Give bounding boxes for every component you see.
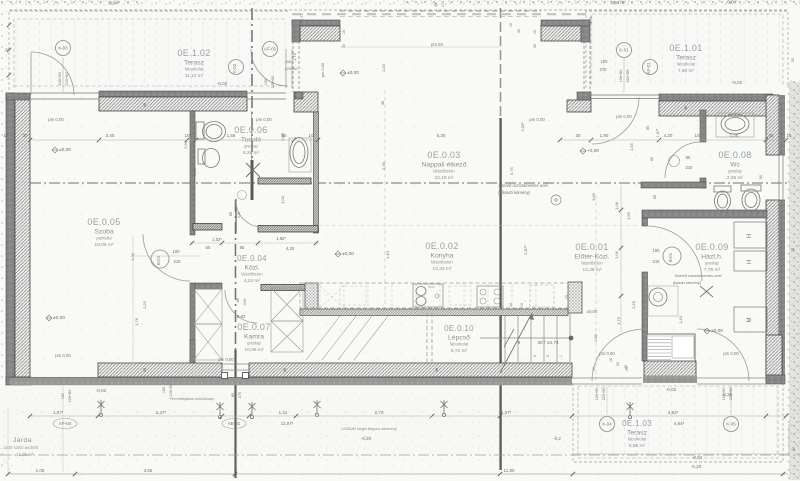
door bubble B-01 hazt xyxy=(663,247,681,265)
terrace 0E.1.02 dashed boundary xyxy=(9,11,290,90)
svg-text:1,55: 1,55 xyxy=(227,133,236,138)
kitchen counter end checkered block xyxy=(568,282,582,313)
svg-text:(állandó kémény): (állandó kémény) xyxy=(498,190,531,195)
svg-text:20: 20 xyxy=(616,362,620,366)
svg-text:220+50: 220+50 xyxy=(271,76,275,89)
svg-text:12,26 m²: 12,26 m² xyxy=(583,267,602,273)
north wall pillar east bar xyxy=(581,20,590,42)
svg-text:2,25: 2,25 xyxy=(142,300,147,309)
svg-text:B-01: B-01 xyxy=(156,255,161,265)
svg-text:30: 30 xyxy=(575,133,581,138)
svg-text:0E.0.06: 0E.0.06 xyxy=(234,125,267,135)
svg-text:Közl.: Közl. xyxy=(244,265,259,272)
svg-text:1,71: 1,71 xyxy=(588,15,593,24)
window K-02 opening lines xyxy=(247,92,286,94)
svg-text:faburkolat: faburkolat xyxy=(450,342,469,347)
tusolo bidet xyxy=(198,149,205,164)
svg-text:100+50: 100+50 xyxy=(595,388,599,401)
north wall right section cap xyxy=(659,94,773,101)
door bubble B-01 szoba xyxy=(151,250,169,268)
svg-text:parketta: parketta xyxy=(96,236,112,241)
svg-text:-0,04: -0,04 xyxy=(692,455,703,460)
svg-text:0E.1.01: 0E.1.01 xyxy=(669,43,702,53)
svg-text:4,24 m²: 4,24 m² xyxy=(244,278,261,284)
svg-text:Terasz: Terasz xyxy=(676,55,697,62)
svg-text:100: 100 xyxy=(173,249,181,254)
svg-text:0E.0.07: 0E.0.07 xyxy=(237,322,270,332)
svg-text:85: 85 xyxy=(686,155,691,160)
svg-text:Terasz: Terasz xyxy=(627,430,648,437)
nappali west wall V1 xyxy=(314,112,319,233)
svg-text:210: 210 xyxy=(653,259,661,264)
svg-text:2,69 m²: 2,69 m² xyxy=(727,175,744,181)
svg-text:85: 85 xyxy=(646,126,650,130)
svg-text:(kazán kémény): (kazán kémény) xyxy=(673,280,702,285)
svg-text:faburkolat: faburkolat xyxy=(677,62,696,67)
svg-text:100: 100 xyxy=(601,59,609,64)
wc east window lines xyxy=(778,155,780,200)
svg-text:6,72 m²: 6,72 m² xyxy=(451,348,468,354)
svg-text:K-03: K-03 xyxy=(58,46,68,51)
svg-text:Házt.h.: Házt.h. xyxy=(701,254,723,261)
svg-text:3,65: 3,65 xyxy=(591,192,596,201)
svg-text:Előtér-Közl.: Előtér-Közl. xyxy=(574,254,609,261)
svg-text:0E.0.01: 0E.0.01 xyxy=(575,242,608,252)
left exterior wall dark strip xyxy=(6,93,15,384)
svg-text:Lépcső: Lépcső xyxy=(448,335,470,342)
entrance corner block dark xyxy=(577,92,591,100)
bottom door opening 1 threshold xyxy=(572,377,642,379)
svg-text:greslap: greslap xyxy=(247,341,261,346)
svg-text:220+50: 220+50 xyxy=(285,67,298,71)
svg-text:látszóbeton: látszóbeton xyxy=(241,272,263,277)
stair right dashed edge xyxy=(569,313,571,362)
svg-text:210: 210 xyxy=(242,298,247,305)
svg-text:1,25: 1,25 xyxy=(730,133,739,138)
svg-text:3,50: 3,50 xyxy=(192,167,197,176)
svg-text:0E.0.02: 0E.0.02 xyxy=(425,241,458,251)
svg-text:1,00: 1,00 xyxy=(130,252,135,261)
corridor dim line xyxy=(190,242,318,244)
tusolo shower wall stub xyxy=(251,160,254,200)
bottom gray strip hazt xyxy=(643,376,697,384)
wc toilet 2 xyxy=(741,185,761,191)
svg-text:30: 30 xyxy=(517,29,521,33)
svg-text:220+50: 220+50 xyxy=(626,70,630,83)
svg-text:1,71: 1,71 xyxy=(299,12,304,21)
svg-text:220+50: 220+50 xyxy=(64,72,69,86)
stair dashed up lines xyxy=(426,313,428,362)
bottom door jamb left xyxy=(222,373,228,379)
svg-text:50: 50 xyxy=(759,175,763,179)
bottom wall hatch hazt segment xyxy=(644,361,696,376)
svg-text:10,33 m²: 10,33 m² xyxy=(433,266,452,272)
svg-text:5,30: 5,30 xyxy=(437,133,446,138)
svg-text:5,93 m²: 5,93 m² xyxy=(610,0,626,5)
scan noise top edge xyxy=(0,0,800,6)
bottom dim row 3 xyxy=(8,473,788,475)
door bubble K-03 xyxy=(56,41,71,56)
wc toilet 1 xyxy=(714,186,731,192)
svg-text:±0,00: ±0,00 xyxy=(711,328,723,334)
svg-text:1,55: 1,55 xyxy=(626,211,631,220)
svg-text:45: 45 xyxy=(434,3,438,7)
nappali east wall lines xyxy=(583,41,585,92)
svg-text:5000: 5000 xyxy=(428,285,435,289)
svg-text:65: 65 xyxy=(653,195,657,199)
svg-text:0E.0.05: 0E.0.05 xyxy=(87,217,120,227)
right exterior wall hatch lower xyxy=(766,200,779,382)
svg-text:6,26 m²: 6,26 m² xyxy=(243,150,260,156)
tusolo door bubble xyxy=(238,191,247,200)
light grid dashed verticals xyxy=(384,90,386,310)
scan noise bottom left xyxy=(0,425,12,470)
svg-text:1,75: 1,75 xyxy=(616,316,621,325)
bottom wall right block dark xyxy=(766,375,785,384)
right exterior wall hatch upper xyxy=(766,95,779,155)
wall V2 between szoba and tusolo xyxy=(190,111,195,235)
svg-text:20: 20 xyxy=(792,447,796,451)
svg-text:Szerelt rozsdamentes acél: Szerelt rozsdamentes acél xyxy=(498,183,548,188)
tusolo shower partition xyxy=(258,178,311,184)
scan noise left edge xyxy=(0,10,6,390)
north wall right section hatch xyxy=(659,101,773,116)
kitchen unit rects xyxy=(340,286,366,305)
svg-text:1,00: 1,00 xyxy=(593,333,598,342)
door B-02 kamra arc xyxy=(225,290,257,323)
svg-text:K-05: K-05 xyxy=(726,422,736,427)
svg-text:pm 0,00: pm 0,00 xyxy=(599,351,615,356)
kitchen sink unit xyxy=(413,284,443,307)
svg-text:3: 3 xyxy=(533,355,537,357)
bottom wall right block hatch xyxy=(766,335,782,375)
svg-text:100+50: 100+50 xyxy=(619,70,623,83)
under stair diagonals xyxy=(306,316,388,360)
sprinkler symbols xyxy=(98,400,105,417)
kamra checkered block xyxy=(305,283,318,314)
wc washbasin xyxy=(716,113,754,137)
corridor top wall H1 right xyxy=(258,226,318,233)
svg-text:H: H xyxy=(747,260,753,264)
svg-text:220+50: 220+50 xyxy=(729,388,733,401)
svg-text:1,08: 1,08 xyxy=(614,201,619,210)
svg-text:19,09 m²: 19,09 m² xyxy=(95,242,114,248)
svg-text:2,45: 2,45 xyxy=(381,161,386,170)
svg-text:greslap: greslap xyxy=(705,261,719,266)
svg-text:±0,00: ±0,00 xyxy=(59,147,71,153)
svg-text:1,55: 1,55 xyxy=(629,142,634,151)
svg-text:faburkolat: faburkolat xyxy=(185,67,204,72)
kitchen counter dashed outline xyxy=(300,283,568,308)
kitchen stove xyxy=(477,286,503,307)
corner pillar at nappali west xyxy=(294,92,318,112)
svg-text:-0,04: -0,04 xyxy=(726,0,737,5)
hazt top wall xyxy=(642,210,767,218)
svg-text:0E.0.04: 0E.0.04 xyxy=(237,254,267,263)
tusolo shower symbol xyxy=(246,163,260,177)
terrace 0E.1.03 dashed boundary xyxy=(573,383,783,462)
svg-text:K-04: K-04 xyxy=(602,422,612,427)
right exterior wall dark strip lower xyxy=(779,200,785,382)
north wall pillar west hatch xyxy=(300,26,340,41)
stair up arrow xyxy=(500,313,532,373)
svg-text:1,05: 1,05 xyxy=(36,468,45,473)
svg-text:3,65: 3,65 xyxy=(144,468,153,473)
vertical section line x=500 xyxy=(500,8,502,118)
big north opening lines xyxy=(340,10,541,12)
hazt left wall lower xyxy=(642,272,648,361)
svg-text:2,60: 2,60 xyxy=(183,140,188,149)
svg-text:16: 16 xyxy=(786,133,792,138)
door bubble AF-03 xyxy=(263,42,278,57)
door bubble K-01 xyxy=(617,43,632,58)
svg-text:100+50: 100+50 xyxy=(722,388,726,401)
svg-text:16: 16 xyxy=(609,358,613,362)
kitchen corner dashed diagonals xyxy=(320,286,344,308)
svg-text:85: 85 xyxy=(229,212,233,216)
svg-text:1,90: 1,90 xyxy=(600,133,609,138)
svg-text:0E.1.02: 0E.1.02 xyxy=(177,48,210,58)
svg-text:-0,02: -0,02 xyxy=(666,387,677,392)
svg-text:30: 30 xyxy=(533,44,537,48)
right exterior wall dark strip upper xyxy=(779,95,785,155)
bottom left dim verticals xyxy=(62,386,64,472)
svg-text:1: 1 xyxy=(559,355,563,357)
stair walk line with dot xyxy=(480,337,571,339)
svg-text:Nappali étkező: Nappali étkező xyxy=(422,162,467,169)
svg-text:pm 0,00: pm 0,00 xyxy=(320,62,325,77)
jarda axis dash line xyxy=(0,454,800,456)
kamra top wall right of door xyxy=(261,285,305,291)
svg-text:48: 48 xyxy=(624,365,628,369)
bottom wall door gap lines xyxy=(222,363,249,365)
left terrace border ticks xyxy=(7,23,11,27)
north wall of Tusolo block hatch xyxy=(99,97,247,111)
svg-text:+0,00: +0,00 xyxy=(587,148,599,154)
svg-text:±0,00: ±0,00 xyxy=(587,309,598,314)
tusolo door arc xyxy=(236,201,262,227)
svg-text:100+50: 100+50 xyxy=(57,72,62,86)
svg-text:10: 10 xyxy=(308,133,314,138)
bottom door opening 2 threshold xyxy=(697,377,766,379)
kitchen fridge unit xyxy=(530,285,554,307)
svg-text:11,12 m²: 11,12 m² xyxy=(185,73,204,79)
svg-text:270: 270 xyxy=(600,67,608,72)
svg-text:-0,04: -0,04 xyxy=(108,1,119,6)
jarda noise speckle xyxy=(0,390,572,466)
svg-text:0E.0.10: 0E.0.10 xyxy=(444,324,474,333)
svg-text:Szerelt rozsdamentes acél: Szerelt rozsdamentes acél xyxy=(674,273,721,278)
svg-text:±0,00: ±0,00 xyxy=(342,251,354,257)
svg-text:1,43: 1,43 xyxy=(678,315,683,324)
hazt washbasin and boiler xyxy=(648,286,678,316)
svg-text:0E.0.03: 0E.0.03 xyxy=(427,150,460,160)
svg-text:30: 30 xyxy=(283,368,287,372)
terrace 0E.1.02 area xyxy=(10,12,290,90)
svg-text:1,00: 1,00 xyxy=(280,132,285,141)
bottom door jamb right xyxy=(243,373,249,379)
svg-text:20: 20 xyxy=(791,248,795,252)
svg-text:látszóbeton: látszóbeton xyxy=(431,260,453,265)
tusolo door leaf xyxy=(235,199,237,233)
svg-text:Wc: Wc xyxy=(730,162,740,169)
svg-text:30: 30 xyxy=(143,103,147,107)
svg-text:30 / 16,74: 30 / 16,74 xyxy=(537,340,559,346)
svg-text:5,75: 5,75 xyxy=(509,166,514,175)
hazt left wall upper xyxy=(642,218,648,226)
svg-text:0E.1.03: 0E.1.03 xyxy=(622,419,652,428)
left exterior wall hatch body xyxy=(15,95,30,377)
svg-text:pm 0,00: pm 0,00 xyxy=(48,117,64,122)
nappali west wall lines with door AF-03 xyxy=(292,41,294,92)
svg-text:K-02: K-02 xyxy=(232,63,237,73)
svg-text:1,00: 1,00 xyxy=(381,63,386,72)
terrace door K-03 opening lines xyxy=(30,92,99,94)
svg-text:15: 15 xyxy=(342,30,346,34)
stair treads xyxy=(505,315,570,362)
wall V2 lower kamra left xyxy=(190,283,195,363)
door bubble AF-01 xyxy=(643,60,658,75)
wc door arc xyxy=(665,142,701,178)
tusolo shower glass line xyxy=(251,111,253,160)
svg-text:220+50: 220+50 xyxy=(602,388,606,401)
vertical axis line lower x=235 xyxy=(235,200,237,350)
door bubble K-04 xyxy=(600,417,615,432)
svg-text:22,19 m²: 22,19 m² xyxy=(435,175,454,181)
szoba dim vertical line xyxy=(132,235,134,365)
jarda sidewalk strip xyxy=(0,387,572,453)
terrace 0E.1.01 dashed boundary xyxy=(586,11,788,88)
svg-text:11,60: 11,60 xyxy=(504,468,515,473)
svg-text:85: 85 xyxy=(240,245,245,250)
terrace door K-04 arc xyxy=(592,329,644,381)
north wall pillar east hatch xyxy=(541,26,581,41)
bottom gray strip left xyxy=(10,378,572,386)
kamra shelf left xyxy=(194,289,222,324)
svg-text:,20: ,20 xyxy=(4,47,10,52)
svg-text:210: 210 xyxy=(237,212,241,218)
kitchen faucet xyxy=(435,294,439,298)
svg-text:17: 17 xyxy=(441,3,445,7)
svg-text:AF-01: AF-01 xyxy=(646,62,651,75)
vertical axis line upper x=252 xyxy=(251,8,253,160)
svg-text:1,10: 1,10 xyxy=(385,250,390,259)
svg-text:0E.0.09: 0E.0.09 xyxy=(695,242,728,252)
bottom wall hatch left segment xyxy=(98,363,222,377)
svg-text:60: 60 xyxy=(206,245,211,250)
top dashed line full width xyxy=(9,9,788,11)
svg-text:H: H xyxy=(747,234,753,238)
svg-text:pm 90: pm 90 xyxy=(431,42,444,47)
kamra top wall left piece xyxy=(195,283,222,289)
svg-text:Konyha: Konyha xyxy=(430,253,453,260)
svg-text:±0,00: ±0,00 xyxy=(347,70,359,76)
tusolo toilet xyxy=(196,122,204,139)
svg-text:-0,02: -0,02 xyxy=(217,81,228,86)
svg-text:30: 30 xyxy=(22,133,28,138)
door AF-03 arc xyxy=(251,49,288,86)
svg-text:3,40: 3,40 xyxy=(106,133,115,138)
svg-text:pm 0,00: pm 0,00 xyxy=(529,117,545,122)
terrace 0E.1.01 area xyxy=(586,11,786,88)
svg-text:pm 0,00: pm 0,00 xyxy=(218,357,234,362)
svg-text:10: 10 xyxy=(184,133,190,138)
svg-text:100: 100 xyxy=(285,60,291,64)
svg-text:210: 210 xyxy=(174,259,182,264)
scan noise right edge xyxy=(789,82,800,480)
entrance opening lines xyxy=(591,94,659,96)
svg-text:7,60 m²: 7,60 m² xyxy=(678,68,695,74)
svg-text:1,76: 1,76 xyxy=(134,317,139,326)
svg-text:greslap: greslap xyxy=(728,169,742,174)
svg-text:greslap: greslap xyxy=(244,144,258,149)
svg-text:85: 85 xyxy=(650,157,654,161)
hazt chimney X symbol xyxy=(700,286,713,297)
svg-text:45: 45 xyxy=(380,100,385,105)
kamra bottom vertical wall stub xyxy=(190,340,195,363)
entrance door arc xyxy=(592,97,639,144)
svg-text:pm 0,00: pm 0,00 xyxy=(55,353,71,358)
svg-text:30: 30 xyxy=(684,106,688,110)
wc left wall lower xyxy=(700,178,706,188)
kitchen bottom thin wall xyxy=(300,309,568,316)
svg-text:30: 30 xyxy=(768,133,774,138)
svg-text:4,20: 4,20 xyxy=(286,246,295,251)
svg-text:faburkolat: faburkolat xyxy=(628,437,647,442)
door K-02 frame lines xyxy=(285,49,287,88)
wc vestibule south wall xyxy=(641,182,706,188)
svg-text:10: 10 xyxy=(509,23,513,27)
svg-text:0E.0.08: 0E.0.08 xyxy=(718,150,751,160)
svg-text:10,96 m²: 10,96 m² xyxy=(245,347,264,353)
svg-text:látszóbeton: látszóbeton xyxy=(433,169,455,174)
svg-text:B-02: B-02 xyxy=(237,314,247,319)
horizontal axis dash-dot line xyxy=(11,182,788,184)
svg-text:10: 10 xyxy=(533,30,537,34)
faint upper line xyxy=(318,225,640,227)
north wall pillar west bar xyxy=(292,20,300,42)
svg-text:B-01: B-01 xyxy=(668,252,673,262)
svg-text:10: 10 xyxy=(694,133,700,138)
svg-text:4,20: 4,20 xyxy=(664,133,673,138)
bottom wall hatch mid segment xyxy=(249,363,572,377)
svg-text:10: 10 xyxy=(509,303,513,307)
north wall pillar west cap xyxy=(292,20,340,26)
svg-text:Szoba: Szoba xyxy=(94,229,113,236)
svg-text:pm 0,00: pm 0,00 xyxy=(616,114,632,119)
door bubble K-02 xyxy=(229,60,244,75)
svg-text:±0,00: ±0,00 xyxy=(53,315,65,321)
hazt outdoor stair box xyxy=(647,334,695,361)
svg-text:1,00: 1,00 xyxy=(280,195,285,204)
svg-text:1,75: 1,75 xyxy=(292,52,297,61)
left wall bottom corner xyxy=(6,377,31,385)
svg-text:pm 0,00: pm 0,00 xyxy=(256,117,272,122)
door K-03 arc xyxy=(31,52,74,95)
svg-text:85: 85 xyxy=(235,297,240,302)
wc left wall upper xyxy=(700,110,706,142)
svg-text:1,06: 1,06 xyxy=(614,250,619,259)
hazt door arc xyxy=(647,226,702,281)
svg-text:Terasz: Terasz xyxy=(184,60,205,67)
svg-text:210: 210 xyxy=(686,165,694,170)
terrace 1.03 right dim lines xyxy=(572,453,790,455)
svg-text:pm 0,00: pm 0,00 xyxy=(723,351,739,356)
svg-text:100: 100 xyxy=(264,79,268,85)
svg-text:100: 100 xyxy=(653,248,661,253)
bottom dim row 1 xyxy=(30,415,788,417)
north wall of Tusolo block cap xyxy=(99,91,247,97)
